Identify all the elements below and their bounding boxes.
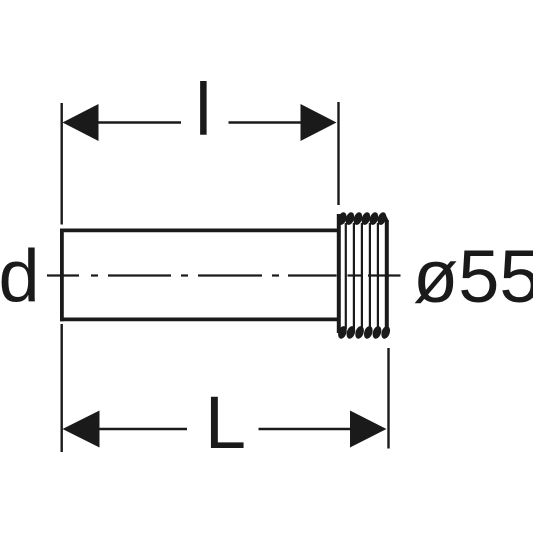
dimension line l (right segment) — [229, 121, 302, 124]
thread crest top 4 — [360, 211, 372, 226]
thread crest top 6 — [376, 211, 388, 226]
thread crest bottom 6 — [380, 325, 392, 340]
dimension line l (left segment) — [97, 121, 181, 124]
thread crest bottom 4 — [362, 325, 374, 340]
arrowhead L right — [350, 411, 387, 448]
thread crest top 3 — [352, 211, 364, 226]
thread left edge — [337, 214, 341, 333]
centerline dash 2 — [108, 274, 171, 276]
tube bottom edge — [60, 317, 339, 321]
centerline dash 5 — [348, 274, 362, 276]
tube left edge — [60, 229, 64, 322]
thread flank line 5 — [377, 223, 379, 329]
svg-text:ø55: ø55 — [413, 235, 533, 318]
extension line right (bottom dimension L) — [387, 348, 389, 449]
tube top edge — [60, 228, 339, 232]
arrowhead L left — [63, 411, 100, 448]
arrowhead l left — [63, 104, 99, 141]
thread crest bottom 5 — [371, 325, 383, 340]
centerline dash 4 — [288, 274, 337, 276]
thread flank line 2 — [353, 223, 355, 329]
extension line left (top dimension l) — [61, 103, 63, 225]
centerline dot 1 — [91, 274, 98, 276]
dimension line L (right segment) — [259, 428, 352, 431]
centerline dash 3 — [198, 274, 262, 276]
thread flank line 1 — [345, 223, 347, 329]
svg-text:l: l — [195, 68, 211, 151]
centerline dot 2 — [181, 274, 188, 276]
thread right edge — [385, 220, 389, 332]
centerline dash 6 — [368, 274, 401, 276]
arrowhead l right — [301, 104, 337, 141]
thread flank line 4 — [369, 223, 371, 329]
thread crest top 5 — [368, 211, 380, 226]
extension line left (bottom dimension L) — [61, 324, 63, 452]
extension line right (top dimension l) — [337, 102, 339, 205]
centerline dot 3 — [272, 274, 279, 276]
dimension line L (left segment) — [98, 428, 187, 431]
centerline dash 1 — [47, 274, 79, 276]
thread crest bottom 2 — [345, 325, 357, 340]
svg-text:d: d — [0, 235, 40, 318]
thread crest bottom 1 — [337, 325, 349, 340]
thread crest top 2 — [344, 211, 356, 226]
svg-text:L: L — [205, 381, 246, 464]
thread crest bottom 3 — [354, 325, 366, 340]
thread flank line 3 — [361, 223, 363, 329]
thread crest top 1 — [336, 211, 348, 226]
thread right top chamfer — [384, 215, 388, 223]
